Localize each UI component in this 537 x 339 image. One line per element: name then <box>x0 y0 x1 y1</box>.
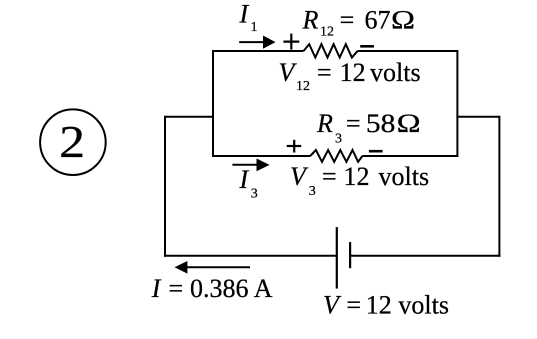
svg-text:=: = <box>346 290 361 319</box>
svg-text:12: 12 <box>340 58 366 87</box>
wire left connector <box>165 116 214 118</box>
svg-text:V: V <box>290 162 309 191</box>
svg-text:1: 1 <box>251 20 258 35</box>
svg-text:=: = <box>322 162 337 191</box>
svg-text:I: I <box>151 274 162 303</box>
svg-text:12: 12 <box>366 290 392 319</box>
svg-text:volts: volts <box>370 58 421 87</box>
wire middle branch left segment <box>213 155 310 157</box>
battery V positive plate <box>336 227 338 289</box>
wire top branch left segment <box>213 50 304 52</box>
current arrow I1 <box>239 36 275 49</box>
svg-text:12: 12 <box>344 162 370 191</box>
label I1 <box>239 0 258 35</box>
problem number circle 2 <box>40 109 106 175</box>
svg-text:R: R <box>316 109 333 138</box>
svg-text:3: 3 <box>335 131 342 146</box>
svg-text:58: 58 <box>366 109 396 138</box>
wire top branch right segment <box>358 50 458 52</box>
svg-text:3: 3 <box>309 184 316 199</box>
svg-text:Ω: Ω <box>397 109 421 138</box>
svg-text:=: = <box>169 274 184 303</box>
label R12 = 67 ohm <box>302 6 416 40</box>
svg-text:Ω: Ω <box>391 6 415 35</box>
label V12 = 12 volts <box>279 58 421 94</box>
minus sign of R3 <box>369 150 383 153</box>
svg-text:I: I <box>239 0 250 29</box>
wire right connector <box>456 116 499 118</box>
svg-text:12: 12 <box>320 24 334 39</box>
svg-text:3: 3 <box>251 186 258 201</box>
plus sign of R3 <box>287 140 302 153</box>
wire inner left vertical <box>212 50 214 157</box>
label V = 12 volts <box>323 290 449 319</box>
svg-text:12: 12 <box>296 79 310 94</box>
label R3 = 58 ohm <box>316 109 421 147</box>
current arrow I3 <box>232 159 269 172</box>
label V3 = 12 volts <box>290 162 429 199</box>
minus sign of R12 <box>360 45 374 48</box>
svg-text:67: 67 <box>365 6 391 35</box>
svg-text:=: = <box>340 6 355 35</box>
svg-text:V: V <box>279 58 298 87</box>
label I3 <box>239 165 258 201</box>
svg-text:=: = <box>317 58 332 87</box>
svg-text:=: = <box>346 109 361 138</box>
wire inner right vertical <box>456 50 458 157</box>
wire outer right vertical <box>498 116 500 257</box>
svg-text:volts: volts <box>379 162 430 191</box>
wire middle branch right segment <box>362 155 457 157</box>
svg-text:V: V <box>323 290 342 319</box>
current arrow I <box>175 261 251 274</box>
battery V negative plate <box>349 242 351 268</box>
label I = 0.386 A <box>151 274 273 303</box>
wire bottom right segment <box>350 255 500 257</box>
svg-text:I: I <box>239 165 250 194</box>
plus sign of R12 <box>283 34 299 50</box>
wire bottom left segment <box>164 255 337 257</box>
svg-text:0.386: 0.386 <box>190 274 249 303</box>
svg-text:A: A <box>254 274 273 303</box>
svg-text:2: 2 <box>59 116 85 167</box>
resistor R12 <box>304 44 358 57</box>
resistor R3 <box>310 150 362 162</box>
svg-text:volts: volts <box>398 290 449 319</box>
wire outer left vertical <box>164 116 166 257</box>
svg-text:R: R <box>302 6 319 35</box>
